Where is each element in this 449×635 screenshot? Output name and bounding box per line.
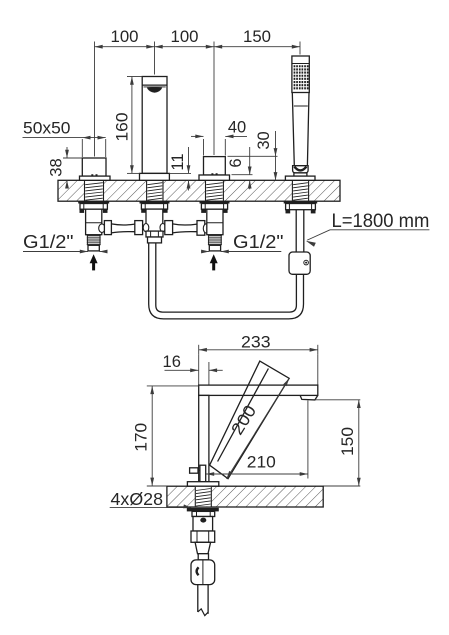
centre bracket foot (left): [141, 209, 146, 213]
left bracket foot (right): [103, 209, 108, 213]
left valve mounting bracket: [80, 204, 107, 210]
dark C mark on ball: [197, 567, 199, 575]
shower bracket foot (right): [311, 210, 316, 214]
centre valve body: [146, 209, 163, 231]
left handle escutcheon plate: [80, 176, 111, 180]
leader line to hose: [307, 230, 330, 240]
temperature lever knob: [190, 468, 198, 473]
strut inner edge line: [218, 369, 269, 462]
hose weight cylinder: [289, 252, 310, 274]
shower holder neck: [294, 173, 307, 176]
side-view deck slab (hatched): [167, 486, 323, 507]
dimension 38 (left handle height over deck): [63, 157, 82, 159]
shower escutcheon plate: [285, 176, 315, 180]
shower spray face (dot grid): [294, 65, 309, 89]
dimension 150 (outlet height over deck): [315, 399, 360, 401]
dark dome arc in cup: [294, 167, 306, 171]
threaded shank of left valve in deck: [85, 183, 103, 201]
left valve pipe end: [88, 245, 99, 251]
svg-text:16: 16: [163, 353, 181, 371]
side-view mounting bar: [187, 508, 219, 512]
svg-text:233: 233: [241, 334, 271, 352]
threaded shank of right valve in deck: [206, 183, 223, 201]
spout outlet (dark aerator arc): [147, 87, 162, 92]
outlet lip under arm end: [300, 395, 318, 400]
side-view hose nut: [198, 554, 208, 560]
left handle knob (50x50): [82, 158, 106, 176]
dimension line 100 / 100 / 150 (hole spacing): [95, 46, 301, 48]
bold inlet arrow (left): [90, 254, 98, 263]
svg-text:150: 150: [243, 28, 271, 46]
right valve mounting bar: [200, 201, 230, 203]
left valve G1/2 threaded tail: [87, 235, 101, 246]
svg-text:210: 210: [247, 454, 276, 472]
centre valve mounting bracket: [141, 204, 167, 210]
leader arrowhead: [306, 241, 316, 247]
shower hose upper section: [295, 210, 297, 252]
centre valve mounting bar: [140, 201, 170, 203]
dimension 6 (escutcheon height): [232, 174, 253, 176]
right valve pipe end: [209, 245, 220, 251]
connecting pipe centre to right valve: [165, 221, 173, 235]
hose below (with break symbol): [197, 585, 199, 612]
connecting pipe left valve to centre: [104, 221, 111, 235]
svg-text:11: 11: [169, 153, 187, 170]
dimension 50x50 with leader: [81, 139, 83, 157]
dimension 40 (right handle width): [203, 139, 205, 156]
dimension 16 (post depth): [165, 369, 199, 371]
centre bracket foot (right): [163, 209, 168, 213]
deck slab (hatched cross-section): [58, 180, 340, 201]
spout cap joint line: [142, 84, 167, 86]
shower bracket foot (left): [286, 210, 291, 214]
right bracket foot (left): [201, 209, 206, 213]
shower holder bracket: [286, 204, 316, 210]
left valve body: [86, 209, 102, 235]
right handle knob (40): [204, 157, 226, 175]
diagonal spout strut: [210, 361, 290, 479]
svg-text:L=1800 mm: L=1800 mm: [332, 211, 430, 232]
left valve side port: [99, 224, 105, 233]
right valve body: [207, 209, 223, 235]
svg-text:170: 170: [133, 423, 151, 452]
left bracket foot (left): [80, 209, 85, 213]
spout base plate: [140, 173, 170, 180]
threaded shank in deck (side view): [196, 489, 211, 507]
svg-text:30: 30: [255, 131, 273, 149]
vertical post of spout: [199, 395, 209, 481]
bold inlet arrow (right): [210, 254, 218, 263]
threaded shank of hand-shower holder in deck: [293, 183, 308, 201]
dimension 30 (right handle height): [228, 155, 278, 157]
side-view valve body: [193, 517, 213, 532]
horizontal arm of spout: [199, 385, 318, 395]
extension lines from top dimension to fixtures: [94, 52, 96, 157]
shower hose U-loop: [149, 243, 304, 319]
hand shower head: [292, 56, 309, 93]
svg-text:150: 150: [339, 427, 357, 456]
side-view collar nut: [191, 531, 215, 542]
svg-text:4xØ28: 4xØ28: [111, 489, 164, 509]
svg-text:50x50: 50x50: [23, 118, 71, 137]
shower handle end cup: [293, 166, 309, 173]
centre valve collar nut: [146, 231, 163, 237]
dimension 200 (spout length along strut): [227, 378, 290, 479]
dimension 160 (spout height): [127, 76, 142, 78]
side-view washer: [192, 511, 215, 516]
centre valve lower section: [148, 237, 162, 243]
shower handle sides: [292, 93, 309, 166]
spout body: [142, 77, 167, 174]
svg-text:40: 40: [228, 119, 246, 137]
right valve G1/2 threaded tail: [208, 235, 222, 246]
threaded shank of spout in deck: [147, 183, 162, 201]
dimension 210 (outlet projection): [206, 473, 308, 475]
dimension 11 (spout base plate height): [169, 172, 191, 174]
side-view base plate: [187, 482, 218, 487]
svg-text:G1/2": G1/2": [23, 232, 74, 252]
left valve mounting bar: [78, 201, 109, 203]
right bracket foot (right): [223, 209, 228, 213]
temperature lever stem: [200, 465, 206, 482]
side-view taper section: [195, 542, 211, 553]
hose break mark: [198, 609, 208, 616]
right handle escutcheon plate: [199, 175, 230, 180]
shower holder mounting bar: [284, 201, 318, 204]
dimension 170 (arm height over deck): [147, 385, 199, 387]
svg-text:G1/2": G1/2": [233, 232, 284, 252]
svg-text:100: 100: [171, 28, 199, 46]
svg-text:160: 160: [113, 113, 131, 142]
side-view hose weight ball: [191, 560, 215, 585]
right valve mounting bracket: [201, 204, 227, 210]
svg-text:100: 100: [111, 28, 139, 46]
shower handle joint line: [294, 105, 308, 107]
svg-text:6: 6: [227, 158, 245, 167]
dimension 233 (overall projection): [199, 349, 318, 351]
svg-text:38: 38: [48, 158, 66, 176]
